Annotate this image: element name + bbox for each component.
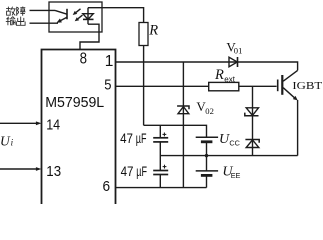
IC M57959L box [42, 50, 116, 205]
zener V02 [177, 106, 189, 114]
COM row (emitter rail) [160, 155, 297, 157]
UEE- rail pin 6 [116, 187, 207, 189]
svg-text:13: 13 [46, 163, 61, 180]
svg-text:1: 1 [105, 53, 114, 70]
svg-text:IGBT: IGBT [292, 81, 323, 92]
capacitor C1 47uF [153, 125, 168, 170]
resistor Rext [209, 82, 239, 90]
wire R bottom to UCC rail [143, 46, 145, 126]
svg-text:47: 47 [120, 131, 133, 146]
optocoupler box [49, 2, 102, 32]
svg-text:14: 14 [46, 116, 60, 133]
svg-text:02: 02 [205, 106, 214, 116]
zener VZ lower (gate clamp) [245, 140, 259, 148]
svg-text:i: i [11, 137, 14, 147]
transistor IGBT [278, 70, 298, 155]
light arrows [73, 9, 83, 21]
zener VZ upper (gate clamp) [245, 108, 259, 116]
wire gate clamp column [252, 86, 254, 155]
svg-text:µF: µF [136, 131, 147, 146]
svg-text:8: 8 [80, 50, 87, 67]
svg-text:U: U [219, 132, 230, 147]
wire row pin 1 to IGBT collector [116, 62, 298, 70]
input wire pin 14 [0, 121, 41, 125]
svg-text:U: U [0, 133, 11, 148]
phototransistor [55, 9, 67, 23]
wire LED anode to resistor R [88, 8, 144, 23]
battery UEE [196, 156, 218, 188]
svg-text:01: 01 [234, 46, 243, 56]
svg-text:EE: EE [231, 171, 241, 180]
fault output wire bottom [30, 22, 59, 24]
LED (optocoupler diode) [83, 8, 94, 25]
diode V01 [229, 57, 238, 67]
input wire pin 13 [0, 167, 41, 171]
label 故障 (hand-drawn strokes) [6, 7, 25, 16]
label 输出 (hand-drawn strokes) [6, 17, 25, 26]
capacitor C2 47uF [153, 165, 168, 188]
svg-text:µF: µF [136, 164, 147, 179]
svg-text:M57959L: M57959L [45, 94, 104, 111]
wire row pin 5 to IGBT gate [116, 85, 277, 87]
wire LED cathode to pin 8 [80, 24, 99, 49]
svg-text:5: 5 [104, 76, 111, 93]
svg-text:CC: CC [229, 138, 240, 147]
resistor R [139, 23, 148, 46]
UCC+ rail [144, 125, 207, 137]
wire zener V02 column pin1 row to UEE rail [182, 62, 184, 188]
svg-text:R: R [148, 22, 158, 38]
fault output wire top [30, 9, 56, 11]
battery UCC [196, 137, 218, 155]
junction dot battery COM [205, 154, 208, 157]
svg-text:6: 6 [103, 178, 111, 195]
svg-text:ext: ext [224, 75, 235, 84]
svg-text:47: 47 [121, 164, 134, 179]
svg-text:R: R [214, 67, 224, 83]
